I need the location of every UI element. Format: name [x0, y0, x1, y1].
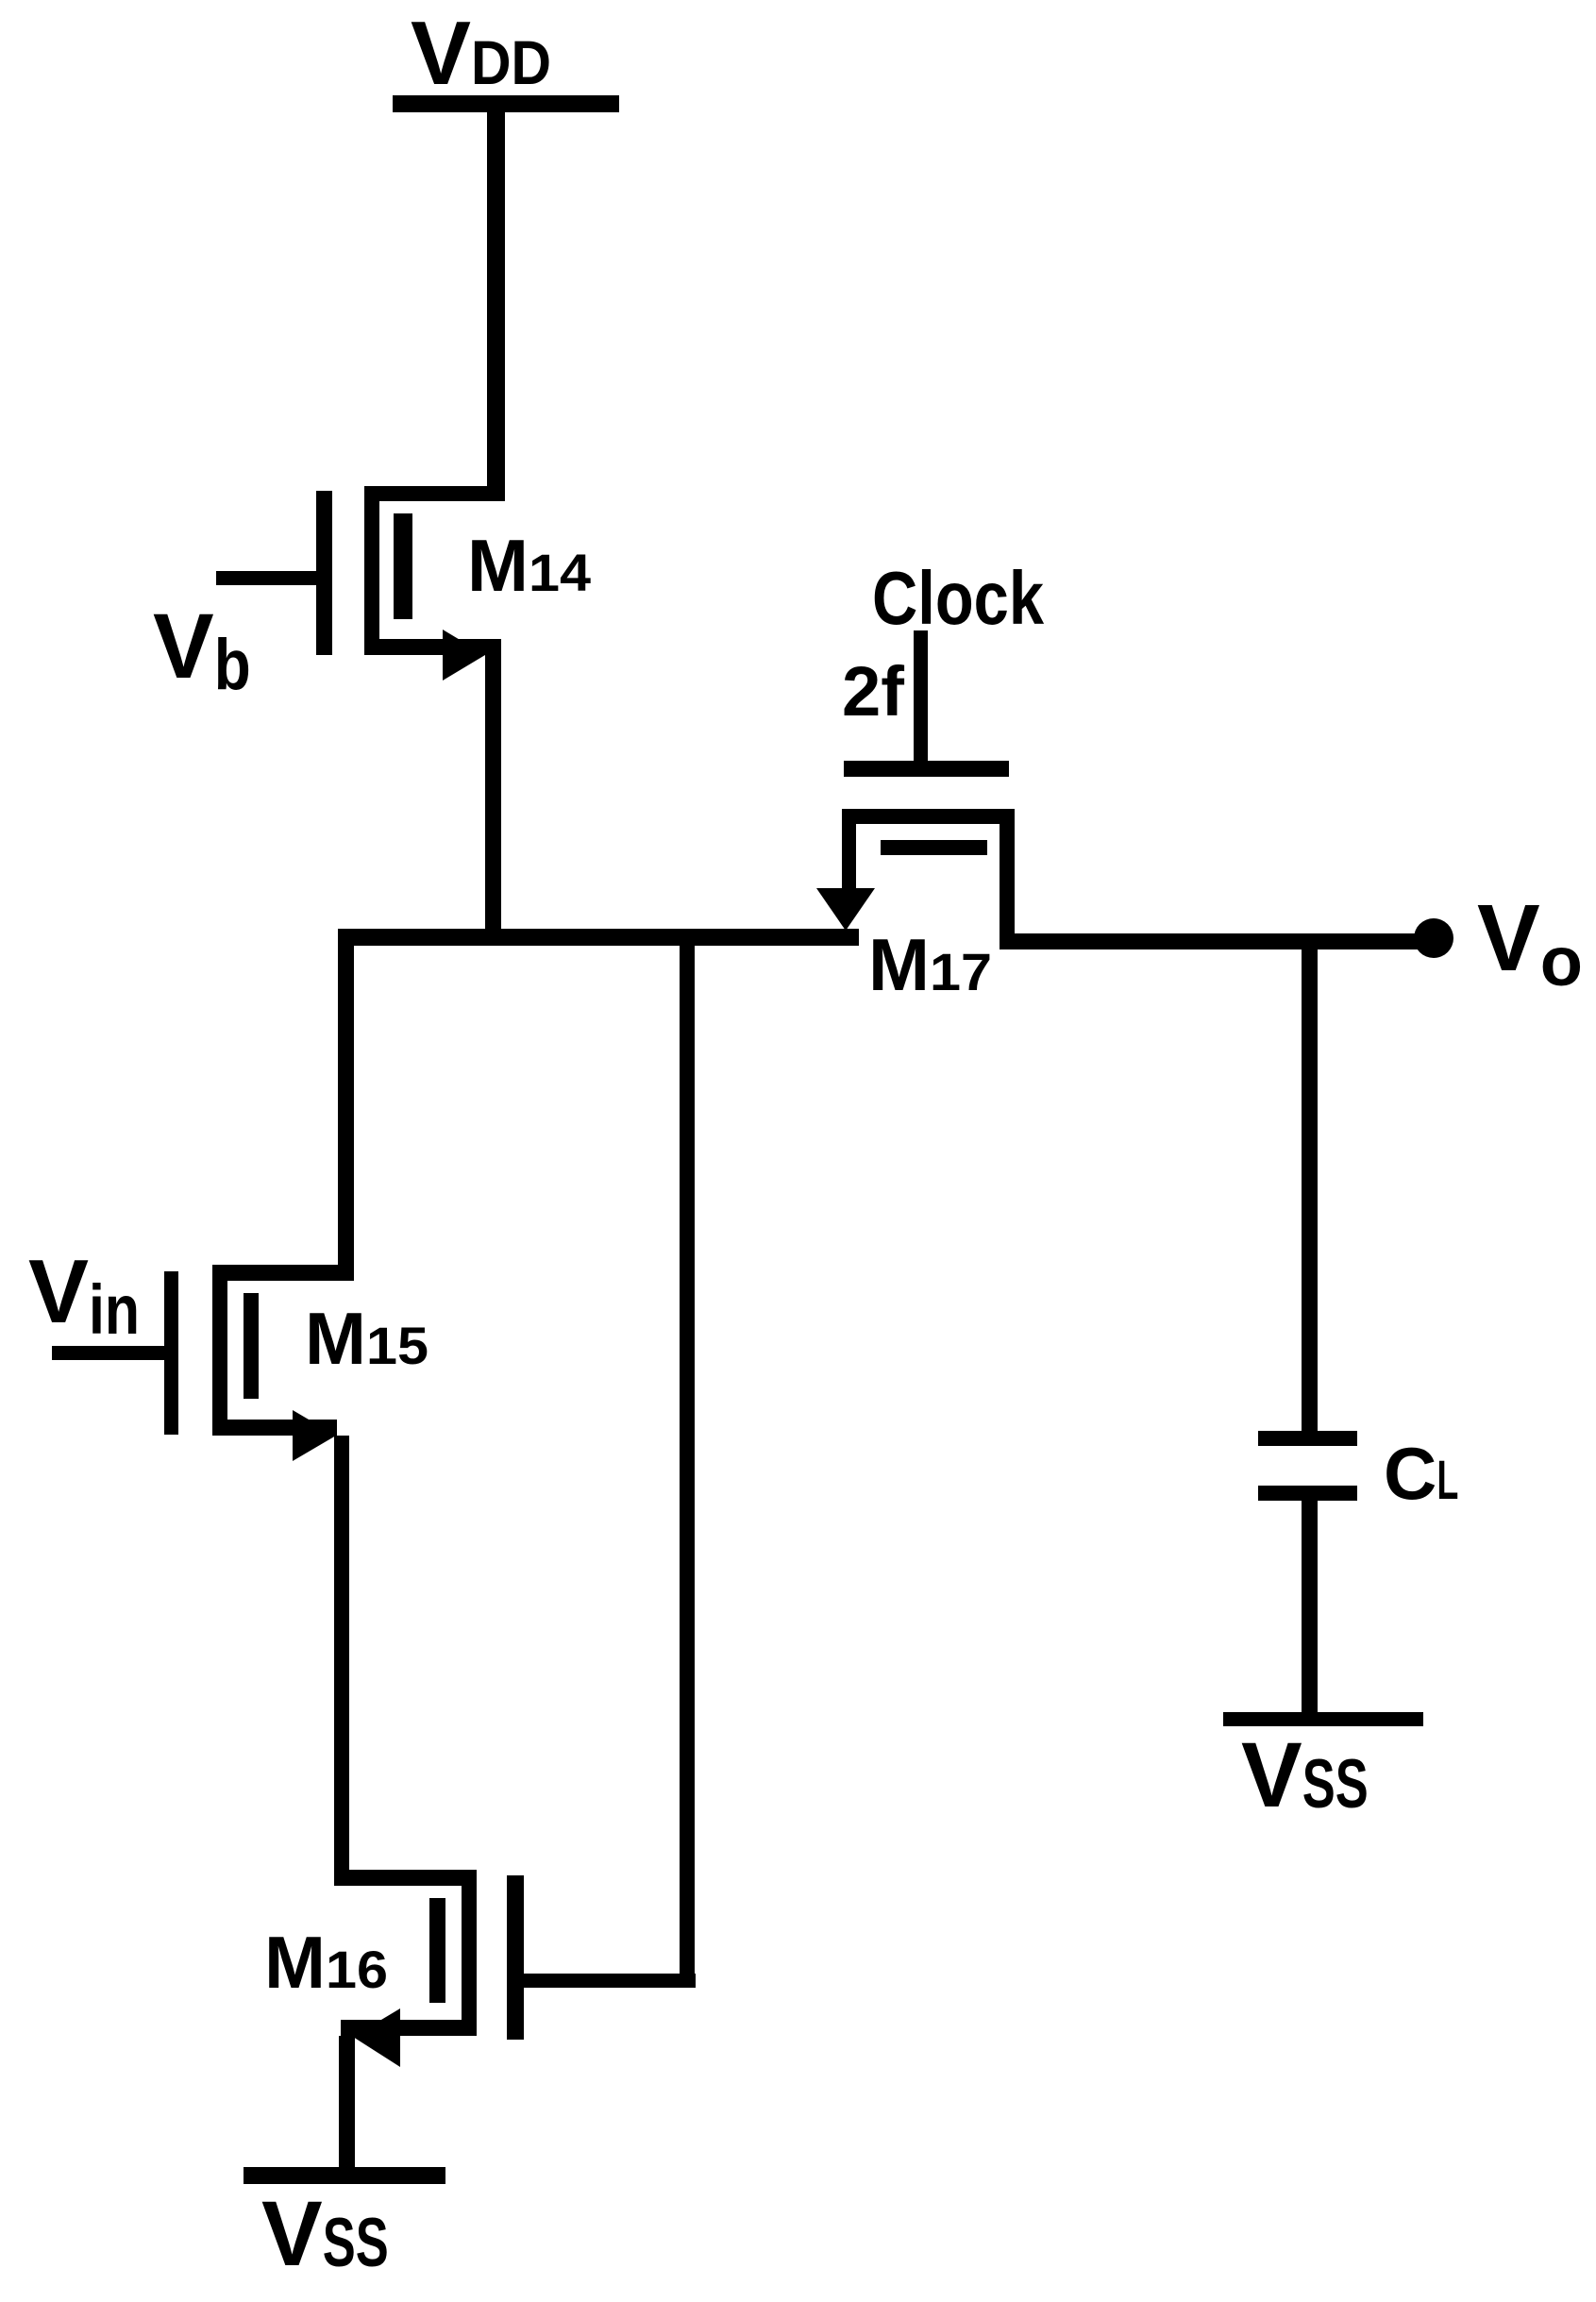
transistor M14 [216, 486, 505, 681]
label CL [1384, 1432, 1458, 1515]
svg-text:CL: CL [1384, 1432, 1458, 1515]
svg-text:VSS: VSS [261, 2182, 389, 2285]
net label 2f [842, 652, 904, 731]
net label VSS right [1241, 1723, 1369, 1826]
label M14 [467, 524, 591, 607]
power rail VSS right [1223, 1712, 1423, 1726]
svg-text:VSS: VSS [1241, 1723, 1369, 1826]
svg-text:Clock: Clock [872, 556, 1044, 640]
net label Clock [872, 556, 1044, 640]
net label VDD [411, 3, 551, 104]
wire M15 source to M16 drain [334, 1436, 349, 1871]
label M16 [264, 1921, 388, 2004]
svg-text:M15: M15 [305, 1297, 428, 1380]
wire node to M15 drain [338, 946, 354, 1265]
node wire A [338, 929, 859, 946]
net label VSS left [261, 2182, 389, 2285]
svg-text:Vo: Vo [1477, 885, 1583, 1000]
wire Clock to M17 gate [914, 630, 928, 761]
transistor M17 gate bar [844, 761, 1009, 777]
wire Vo to CL [1302, 949, 1318, 1431]
net label Vb [153, 595, 251, 705]
label M15 [305, 1297, 428, 1380]
wire node to M16 gate [680, 946, 695, 1988]
wire M14 source to node [485, 654, 501, 946]
svg-text:VDD: VDD [411, 3, 551, 104]
wire VDD to M14 drain [487, 112, 505, 501]
transistor M15 [52, 1265, 354, 1461]
wire CL to VSS [1302, 1501, 1318, 1712]
net label Vin [28, 1241, 140, 1349]
net label Vo [1477, 885, 1583, 1000]
output wire M17 to Vo [1015, 933, 1430, 949]
svg-text:M17: M17 [868, 923, 992, 1006]
svg-text:Vin: Vin [28, 1241, 140, 1349]
wire M16 source to VSS [339, 2036, 355, 2167]
capacitor CL [1258, 1431, 1357, 1501]
power rail VDD [393, 95, 619, 112]
transistor M16 [334, 1870, 696, 2067]
label M17 [868, 923, 992, 1006]
svg-text:Vb: Vb [153, 595, 251, 705]
svg-text:2f: 2f [842, 652, 904, 731]
svg-text:M14: M14 [467, 524, 591, 607]
svg-text:M16: M16 [264, 1921, 388, 2004]
node Vo dot [1414, 918, 1453, 958]
transistor M17 [816, 809, 1015, 949]
power rail VSS left [244, 2167, 445, 2184]
